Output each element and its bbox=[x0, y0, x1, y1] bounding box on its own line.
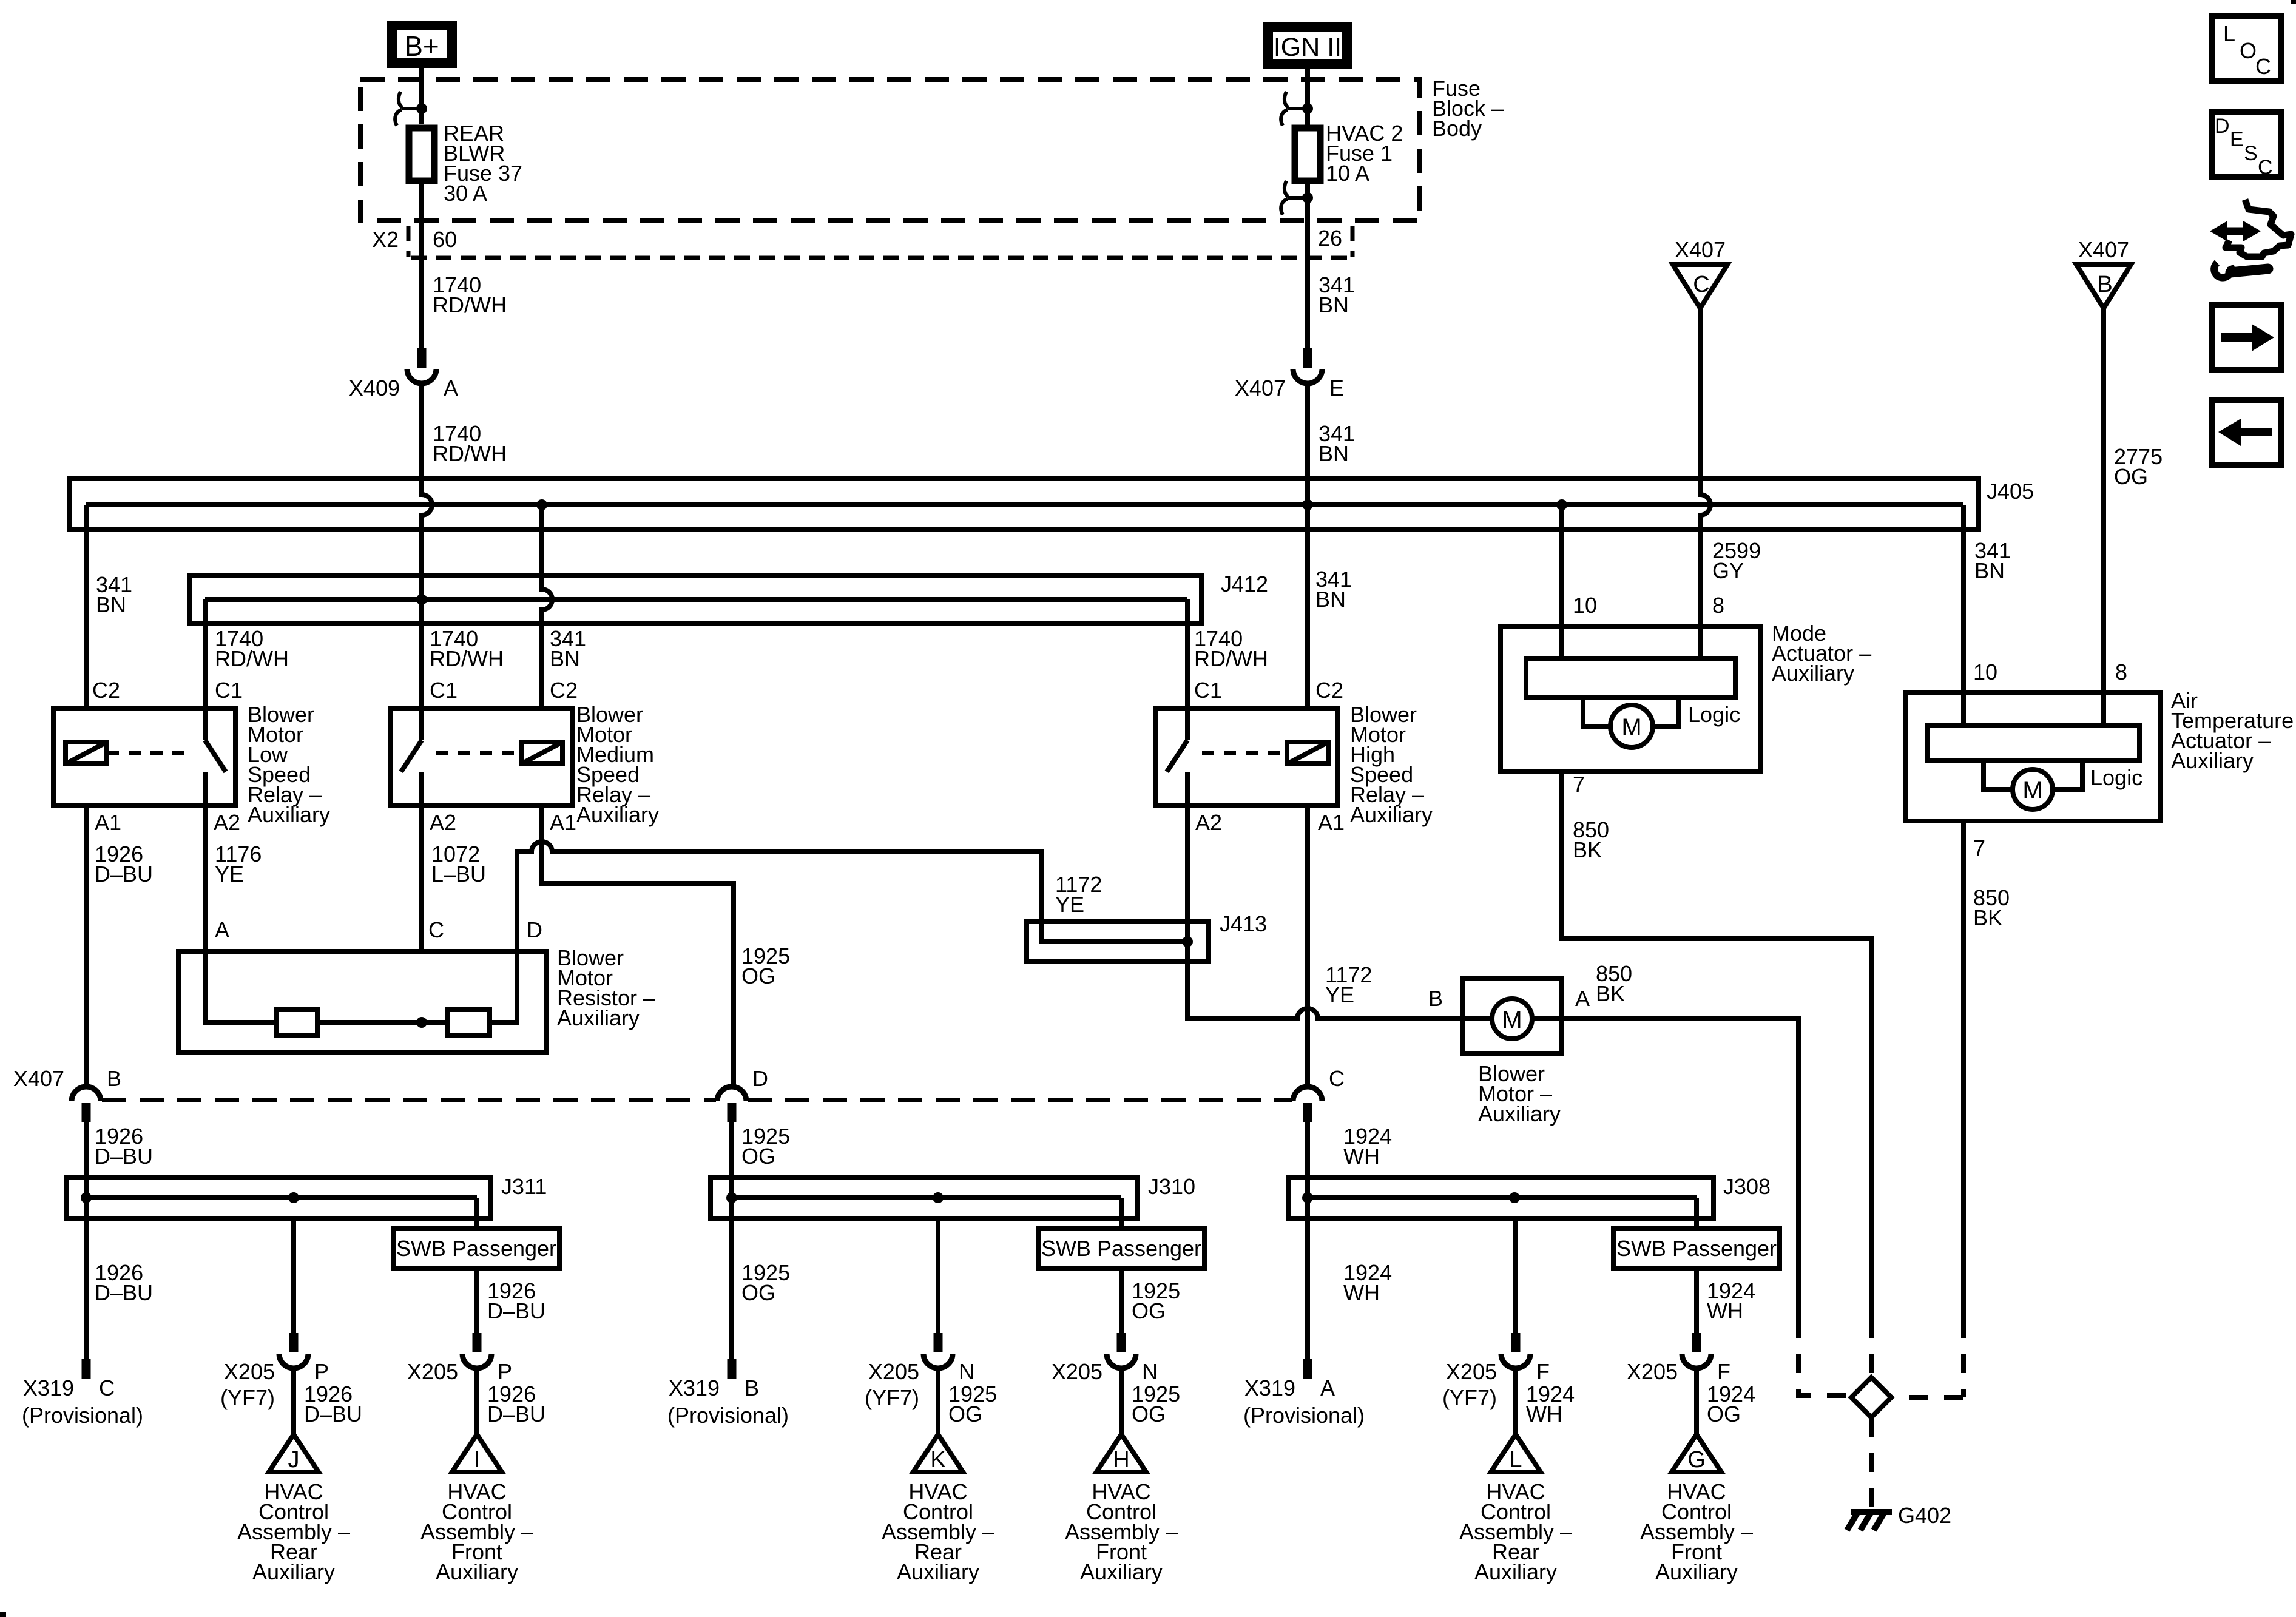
wire label 850 BK (air temp) bbox=[1973, 885, 2010, 930]
svg-text:J311: J311 bbox=[501, 1174, 547, 1199]
wire branch to X205 K bbox=[923, 1218, 953, 1434]
svg-text:J413: J413 bbox=[1220, 911, 1267, 936]
splice bus J310 bbox=[711, 1174, 1195, 1218]
label pin 10 (mode) bbox=[1573, 593, 1597, 618]
wire label 1925 OG (above J310) bbox=[741, 1124, 790, 1169]
wire B+ to fuse bbox=[419, 68, 424, 124]
svg-text:I: I bbox=[474, 1447, 481, 1473]
labels X205 I bbox=[407, 1359, 545, 1426]
label X407 (C triangle) bbox=[1675, 237, 1726, 262]
junction dot J412-B+ rail bbox=[416, 594, 427, 605]
junction dot J310 left bbox=[726, 1192, 737, 1203]
splice bus J412 wire bbox=[205, 597, 1187, 602]
svg-text:X319: X319 bbox=[1244, 1376, 1295, 1400]
wire label 341 BN lower bbox=[1319, 421, 1355, 466]
junction dot J311 mid bbox=[288, 1192, 299, 1203]
icon LOC box bbox=[2212, 16, 2281, 81]
wire J405 left drop 341 BN bbox=[84, 505, 89, 709]
wire branch to X205 L bbox=[1501, 1218, 1530, 1434]
connector X407 D cup bbox=[717, 1087, 746, 1122]
labels X205 K bbox=[865, 1359, 997, 1426]
junction dot J405-IGN bbox=[1302, 499, 1313, 510]
low relay name bbox=[248, 702, 330, 827]
connector X407 C triangle bbox=[1673, 265, 1727, 308]
svg-text:10 A: 10 A bbox=[1326, 161, 1369, 186]
label A1 (low relay) bbox=[95, 810, 121, 835]
svg-text:B+: B+ bbox=[404, 30, 439, 62]
actuator air temperature (Air Temperature Actuator - Auxiliary) bbox=[1906, 693, 2161, 821]
svg-text:A: A bbox=[215, 917, 229, 942]
label C2 (low relay) bbox=[92, 678, 120, 703]
connector X2 row dashes bbox=[408, 226, 1352, 258]
wire fuse37 to X2 bbox=[419, 181, 424, 348]
svg-text:O: O bbox=[2240, 38, 2257, 63]
label pin C (resistor) bbox=[428, 917, 444, 942]
wire label 1926 D-BU (above J311) bbox=[95, 1124, 153, 1169]
svg-text:30 A: 30 A bbox=[444, 181, 487, 206]
svg-text:A1: A1 bbox=[95, 810, 121, 835]
label pin 8 (mode) bbox=[1712, 593, 1724, 618]
svg-text:OG: OG bbox=[948, 1402, 982, 1426]
wire label 2599 GY bbox=[1712, 538, 1761, 583]
wire label 850 BK (blower) bbox=[1596, 961, 1632, 1006]
ground wire dashed (blower) bbox=[1798, 1318, 1851, 1396]
label X2 bbox=[372, 227, 399, 252]
label A2 (medium relay) bbox=[430, 810, 456, 835]
label pin 7 (air temp) bbox=[1973, 836, 1985, 860]
junction dot J308 mid bbox=[1509, 1192, 1520, 1203]
wire 1924 WH high A1 to X407C bbox=[1305, 805, 1310, 1087]
label X409 bbox=[349, 376, 400, 400]
terminal X319 C bbox=[82, 1359, 91, 1379]
svg-text:Auxiliary: Auxiliary bbox=[557, 1005, 640, 1030]
connector X407E terminal bbox=[1303, 348, 1312, 368]
svg-text:X205: X205 bbox=[1627, 1359, 1678, 1384]
svg-text:OG: OG bbox=[741, 964, 775, 988]
svg-text:D–BU: D–BU bbox=[95, 862, 153, 886]
page artifact mark bottom-left bbox=[0, 1612, 6, 1617]
icon DESC box bbox=[2212, 112, 2281, 179]
svg-text:D–BU: D–BU bbox=[304, 1402, 362, 1426]
connector X407 row dashes bbox=[102, 1098, 1292, 1102]
svg-text:B: B bbox=[745, 1376, 759, 1400]
blower motor name bbox=[1478, 1061, 1561, 1126]
svg-text:C: C bbox=[1693, 272, 1709, 297]
svg-text:BK: BK bbox=[1573, 837, 1602, 862]
svg-text:X205: X205 bbox=[1052, 1359, 1102, 1384]
svg-text:BK: BK bbox=[1596, 981, 1625, 1006]
fuse clip hook top (REAR BLWR) bbox=[395, 92, 427, 126]
connector X409 cup bbox=[407, 369, 436, 383]
svg-text:L: L bbox=[2223, 21, 2235, 46]
terminal X319 B bbox=[728, 1359, 737, 1379]
wire label 341 BN (high C2) bbox=[1315, 567, 1352, 612]
mode actuator name bbox=[1772, 621, 1871, 686]
label pin C (X407) bbox=[1329, 1066, 1345, 1091]
svg-text:Auxiliary: Auxiliary bbox=[436, 1559, 518, 1584]
junction dot J311 left bbox=[81, 1192, 92, 1203]
relay K? low speed (Blower Motor Low Speed Relay - Auxiliary) bbox=[53, 709, 235, 805]
label pin B (X407) bbox=[107, 1066, 121, 1091]
wire 1172 YE resistor D to J413 bbox=[517, 842, 1187, 951]
svg-text:RD/WH: RD/WH bbox=[1194, 646, 1268, 671]
wire medium A1 to 1925 OG corner bbox=[542, 805, 734, 1087]
svg-text:(YF7): (YF7) bbox=[865, 1385, 919, 1410]
fuse HVAC 2 Fuse 1 10A bbox=[1295, 68, 1320, 181]
splice bus J405 box bbox=[70, 478, 1979, 529]
wire J308 to SWB3 bbox=[1694, 1198, 1699, 1229]
svg-text:Auxiliary: Auxiliary bbox=[1772, 661, 1854, 686]
power symbol IGN II bbox=[1268, 27, 1347, 64]
svg-text:K: K bbox=[930, 1447, 945, 1473]
connector triangle H bbox=[1096, 1434, 1146, 1473]
icon fix-vehicle (double arrow) bbox=[2210, 221, 2261, 241]
fuse block dashed outline bbox=[360, 79, 1420, 221]
label pin D (X407) bbox=[752, 1066, 768, 1091]
wire label 1926 D-BU (low A1) bbox=[95, 842, 153, 886]
svg-text:D–BU: D–BU bbox=[95, 1144, 153, 1169]
svg-text:OG: OG bbox=[1132, 1298, 1166, 1323]
label pin A bbox=[444, 376, 458, 400]
svg-text:SWB Passenger: SWB Passenger bbox=[1041, 1236, 1201, 1261]
wire to X319 B bbox=[729, 1198, 734, 1359]
connector triangle J bbox=[269, 1434, 319, 1473]
svg-text:Auxiliary: Auxiliary bbox=[576, 802, 659, 827]
svg-text:YE: YE bbox=[215, 862, 244, 886]
svg-text:M: M bbox=[2022, 777, 2042, 804]
wire label 341 BN upper bbox=[1319, 272, 1355, 317]
splice bus J413 box bbox=[1027, 922, 1209, 962]
svg-text:7: 7 bbox=[1973, 836, 1985, 860]
air temp actuator name bbox=[2171, 688, 2294, 773]
svg-text:X409: X409 bbox=[349, 376, 400, 400]
svg-text:B: B bbox=[107, 1066, 121, 1091]
junction dot J413 bbox=[1182, 936, 1193, 947]
wire label above X205 H bbox=[1132, 1278, 1180, 1323]
wire label 1740 RD/WH (high C1) bbox=[1194, 626, 1268, 671]
wire 341 BN drop to medium relay C2 bbox=[542, 505, 552, 709]
fuse block label bbox=[1432, 76, 1504, 141]
wire label 850 BK (mode) bbox=[1573, 817, 1609, 862]
wire label 1924 WH (above J308) bbox=[1343, 1124, 1392, 1169]
svg-text:C: C bbox=[2255, 54, 2271, 79]
connector X407 B cup bbox=[72, 1087, 101, 1122]
svg-text:Auxiliary: Auxiliary bbox=[1655, 1559, 1738, 1584]
svg-text:SWB Passenger: SWB Passenger bbox=[396, 1236, 556, 1261]
svg-text:H: H bbox=[1113, 1447, 1129, 1473]
label 60 bbox=[433, 227, 457, 252]
svg-text:C: C bbox=[1329, 1066, 1345, 1091]
icon fix-vehicle (wrench) bbox=[2214, 263, 2268, 278]
svg-text:X319: X319 bbox=[23, 1376, 74, 1400]
svg-text:YE: YE bbox=[1325, 982, 1354, 1007]
svg-text:RD/WH: RD/WH bbox=[433, 441, 507, 466]
svg-text:(YF7): (YF7) bbox=[220, 1385, 275, 1410]
svg-text:Auxiliary: Auxiliary bbox=[2171, 748, 2254, 773]
fuse REAR BLWR Fuse 37 30A bbox=[409, 128, 434, 181]
svg-text:J310: J310 bbox=[1148, 1174, 1195, 1199]
label X319 B bbox=[667, 1376, 789, 1428]
svg-text:C1: C1 bbox=[1194, 678, 1222, 703]
wire label 1740 RD/WH lower bbox=[433, 421, 507, 466]
svg-text:X2: X2 bbox=[372, 227, 399, 252]
label pin 8 (air temp) bbox=[2115, 660, 2127, 684]
svg-text:IGN II: IGN II bbox=[1274, 33, 1342, 62]
label A1 (medium relay) bbox=[550, 810, 576, 835]
label pin 10 (air temp) bbox=[1973, 660, 1997, 684]
svg-text:BN: BN bbox=[96, 592, 126, 617]
svg-text:X319: X319 bbox=[669, 1376, 720, 1400]
svg-text:C: C bbox=[428, 917, 444, 942]
icon next arrow box bbox=[2212, 305, 2281, 370]
connector triangle K bbox=[913, 1434, 963, 1473]
svg-text:F: F bbox=[1717, 1359, 1730, 1384]
ground splice diamond bbox=[1851, 1377, 1891, 1417]
svg-text:X205: X205 bbox=[224, 1359, 275, 1384]
svg-text:M: M bbox=[1502, 1007, 1522, 1033]
HVAC control assembly label (H) bbox=[1065, 1479, 1178, 1584]
svg-text:SWB Passenger: SWB Passenger bbox=[1616, 1236, 1777, 1261]
svg-text:BN: BN bbox=[1974, 558, 2005, 583]
svg-text:(Provisional): (Provisional) bbox=[1243, 1403, 1365, 1428]
wire to X319 A bbox=[1305, 1198, 1310, 1359]
svg-text:A: A bbox=[1320, 1376, 1335, 1400]
svg-text:BN: BN bbox=[1319, 441, 1349, 466]
label pin D (resistor) bbox=[527, 917, 542, 942]
svg-text:F: F bbox=[1536, 1359, 1550, 1384]
wire branch to X205 H bbox=[1107, 1268, 1136, 1434]
svg-text:WH: WH bbox=[1343, 1280, 1380, 1305]
svg-text:Logic: Logic bbox=[1688, 702, 1740, 727]
svg-text:RD/WH: RD/WH bbox=[430, 646, 504, 671]
svg-text:OG: OG bbox=[1132, 1402, 1166, 1426]
svg-text:E: E bbox=[2230, 128, 2244, 151]
svg-text:Auxiliary: Auxiliary bbox=[897, 1559, 979, 1584]
label pin A (blower) bbox=[1575, 986, 1590, 1011]
resistor block (Blower Motor Resistor - Auxiliary) bbox=[178, 951, 546, 1052]
wire X407E to J405 bbox=[1305, 383, 1310, 709]
resistor name bbox=[557, 945, 655, 1030]
wire J405 right drop 341 BN to air temp pin10 bbox=[1961, 505, 1966, 693]
svg-text:(Provisional): (Provisional) bbox=[667, 1403, 789, 1428]
svg-text:26: 26 bbox=[1318, 226, 1342, 251]
svg-text:L: L bbox=[1509, 1447, 1522, 1473]
svg-text:X205: X205 bbox=[1446, 1359, 1497, 1384]
connector X409 terminal bbox=[417, 348, 427, 368]
label X319 A bbox=[1243, 1376, 1365, 1428]
wire 2599 GY from X407C bbox=[1700, 308, 1710, 626]
wire label 1926 D-BU (below J311) bbox=[95, 1260, 153, 1305]
actuator mode (Mode Actuator - Auxiliary) bbox=[1501, 626, 1761, 771]
label C1 (high relay) bbox=[1194, 678, 1222, 703]
label J413 bbox=[1220, 911, 1267, 936]
label A2 (high relay) bbox=[1195, 810, 1222, 835]
svg-text:J: J bbox=[288, 1447, 300, 1473]
svg-text:(Provisional): (Provisional) bbox=[22, 1403, 143, 1428]
svg-text:Auxiliary: Auxiliary bbox=[1478, 1101, 1561, 1126]
svg-text:8: 8 bbox=[2115, 660, 2127, 684]
terminal X319 A bbox=[1303, 1359, 1312, 1379]
wire J412 right drop to high relay C1 bbox=[1185, 599, 1190, 709]
wire label 341 BN (air temp) bbox=[1974, 538, 2011, 583]
labels X205 G bbox=[1627, 1359, 1755, 1426]
wire fuse1 down bbox=[1305, 181, 1310, 348]
icon back arrow box bbox=[2212, 400, 2281, 465]
wire 1926 D-BU low A1 to X407B bbox=[84, 805, 89, 1087]
svg-text:E: E bbox=[1329, 376, 1344, 400]
svg-text:A: A bbox=[444, 376, 458, 400]
wire 1172 YE high A2 to blower motor B bbox=[1187, 805, 1463, 1019]
wire J311 to SWB1 bbox=[474, 1198, 479, 1229]
svg-text:A1: A1 bbox=[550, 810, 576, 835]
wire 1176 YE low A2 to resistor A bbox=[203, 805, 208, 951]
svg-text:X407: X407 bbox=[1235, 376, 1286, 400]
ground G402 symbol bbox=[1847, 1512, 1892, 1530]
medium relay name bbox=[576, 702, 659, 827]
icon fix-vehicle (part outline) bbox=[2226, 200, 2291, 257]
label C1 (low relay) bbox=[215, 678, 243, 703]
wire label above X205 I bbox=[487, 1278, 545, 1323]
svg-text:BN: BN bbox=[550, 646, 580, 671]
high relay name bbox=[1350, 702, 1433, 827]
wire label 1740 RD/WH upper bbox=[433, 272, 507, 317]
svg-text:A2: A2 bbox=[214, 810, 240, 835]
label A1 (high relay) bbox=[1318, 810, 1345, 835]
splice bus J405 wire bbox=[86, 502, 1963, 507]
svg-text:A2: A2 bbox=[1195, 810, 1222, 835]
svg-text:X205: X205 bbox=[868, 1359, 919, 1384]
wire label 341 BN (medium C2) bbox=[550, 626, 586, 671]
page artifact mark top-right bbox=[2291, 0, 2296, 4]
label 26 bbox=[1318, 226, 1342, 251]
wire branch to X205 J bbox=[279, 1218, 308, 1434]
label C1 (medium relay) bbox=[430, 678, 458, 703]
svg-text:RD/WH: RD/WH bbox=[215, 646, 289, 671]
svg-text:X407: X407 bbox=[13, 1066, 64, 1091]
svg-text:B: B bbox=[1428, 986, 1443, 1011]
option box SWB2 SWB Passenger bbox=[1038, 1229, 1204, 1268]
wire J310 to SWB2 bbox=[1119, 1198, 1124, 1229]
junction dot resistor C bbox=[416, 1017, 427, 1028]
label pin B (blower) bbox=[1428, 986, 1443, 1011]
wire label 1924 WH (below J308) bbox=[1343, 1260, 1392, 1305]
junction dot J308 left bbox=[1302, 1192, 1313, 1203]
option box SWB3 SWB Passenger bbox=[1613, 1229, 1780, 1268]
svg-text:Auxiliary: Auxiliary bbox=[1474, 1559, 1557, 1584]
wire 1072 L-BU medium A2 to resistor C bbox=[419, 805, 424, 951]
wire label above X205 G bbox=[1707, 1278, 1755, 1323]
junction dot J310 mid bbox=[933, 1192, 944, 1203]
connector X407 C cup bbox=[1293, 1087, 1322, 1122]
label C2 (medium relay) bbox=[550, 678, 578, 703]
connector X407E cup bbox=[1293, 369, 1322, 383]
motor M1 blower (Blower Motor - Auxiliary) bbox=[1463, 979, 1561, 1053]
svg-text:C2: C2 bbox=[1315, 678, 1343, 703]
labels X205 H bbox=[1052, 1359, 1180, 1426]
label pin A (resistor) bbox=[215, 917, 229, 942]
wire label 1925 OG (below J310) bbox=[741, 1260, 790, 1305]
svg-text:OG: OG bbox=[741, 1144, 775, 1169]
svg-text:D: D bbox=[752, 1066, 768, 1091]
connector triangle L bbox=[1491, 1434, 1541, 1473]
svg-text:B: B bbox=[2097, 272, 2112, 297]
svg-text:C1: C1 bbox=[215, 678, 243, 703]
relay medium speed (Blower Motor Medium Speed Relay - Auxiliary) bbox=[391, 709, 573, 805]
svg-text:A: A bbox=[1575, 986, 1590, 1011]
label X407 (E) bbox=[1235, 376, 1286, 400]
svg-text:OG: OG bbox=[2114, 464, 2148, 489]
svg-text:Auxiliary: Auxiliary bbox=[1350, 802, 1433, 827]
svg-text:BN: BN bbox=[1315, 587, 1346, 612]
svg-text:Auxiliary: Auxiliary bbox=[1080, 1559, 1163, 1584]
label X407 (B triangle) bbox=[2078, 237, 2129, 262]
wire label 2775 OG bbox=[2114, 444, 2163, 489]
wire label 1176 YE bbox=[215, 842, 262, 886]
svg-text:BK: BK bbox=[1973, 905, 2002, 930]
svg-text:BN: BN bbox=[1319, 292, 1349, 317]
wire 850 BK mode pin7 bbox=[1562, 771, 1871, 1318]
label J412 bbox=[1221, 572, 1268, 596]
svg-text:N: N bbox=[1142, 1359, 1158, 1384]
svg-text:Auxiliary: Auxiliary bbox=[248, 802, 330, 827]
svg-text:D: D bbox=[527, 917, 542, 942]
connector triangle I bbox=[452, 1434, 502, 1473]
label pin 7 (mode) bbox=[1573, 772, 1585, 797]
wire 2775 OG from X407B bbox=[2101, 308, 2106, 693]
svg-text:60: 60 bbox=[433, 227, 457, 252]
wire branch to X205 G bbox=[1682, 1268, 1711, 1434]
svg-text:Logic: Logic bbox=[2090, 765, 2142, 790]
svg-text:G: G bbox=[1687, 1447, 1706, 1473]
svg-text:X205: X205 bbox=[407, 1359, 458, 1384]
label X407 (row) bbox=[13, 1066, 64, 1091]
wire 341 BN drop to mode actuator pin10 bbox=[1559, 505, 1564, 626]
svg-text:N: N bbox=[959, 1359, 974, 1384]
fuse 1 label bbox=[1326, 121, 1403, 186]
svg-text:J308: J308 bbox=[1723, 1174, 1771, 1199]
svg-text:10: 10 bbox=[1573, 593, 1597, 618]
label X319 C bbox=[22, 1376, 143, 1428]
svg-text:M: M bbox=[1621, 714, 1641, 741]
svg-text:OG: OG bbox=[741, 1280, 775, 1305]
wire label 341 BN left rail bbox=[96, 572, 132, 617]
svg-text:A1: A1 bbox=[1318, 810, 1345, 835]
wire label 1172 YE (blower B) bbox=[1325, 962, 1372, 1007]
splice bus J311 bbox=[67, 1174, 547, 1218]
svg-text:7: 7 bbox=[1573, 772, 1585, 797]
label pin E bbox=[1329, 376, 1344, 400]
svg-text:A2: A2 bbox=[430, 810, 456, 835]
svg-text:Auxiliary: Auxiliary bbox=[252, 1559, 335, 1584]
label C2 (high relay) bbox=[1315, 678, 1343, 703]
svg-text:J412: J412 bbox=[1221, 572, 1268, 596]
label Logic (air temp) bbox=[2090, 765, 2142, 790]
svg-text:X407: X407 bbox=[2078, 237, 2129, 262]
wire 1924 WH to J308 bbox=[1305, 1122, 1310, 1198]
svg-text:WH: WH bbox=[1526, 1402, 1562, 1426]
labels X205 L bbox=[1442, 1359, 1575, 1426]
ground wire dashed (air temp) bbox=[1891, 1318, 1963, 1397]
splice bus J412 box bbox=[190, 575, 1201, 624]
fuse 37 label bbox=[444, 121, 522, 206]
svg-text:OG: OG bbox=[1707, 1402, 1741, 1426]
wire 1926 D-BU to J311 bbox=[84, 1122, 89, 1198]
HVAC control assembly label (L) bbox=[1459, 1479, 1572, 1584]
svg-text:L–BU: L–BU bbox=[431, 862, 486, 886]
svg-text:X407: X407 bbox=[1675, 237, 1726, 262]
svg-text:RD/WH: RD/WH bbox=[433, 292, 507, 317]
fuse clip hook top (HVAC2) bbox=[1281, 92, 1313, 126]
